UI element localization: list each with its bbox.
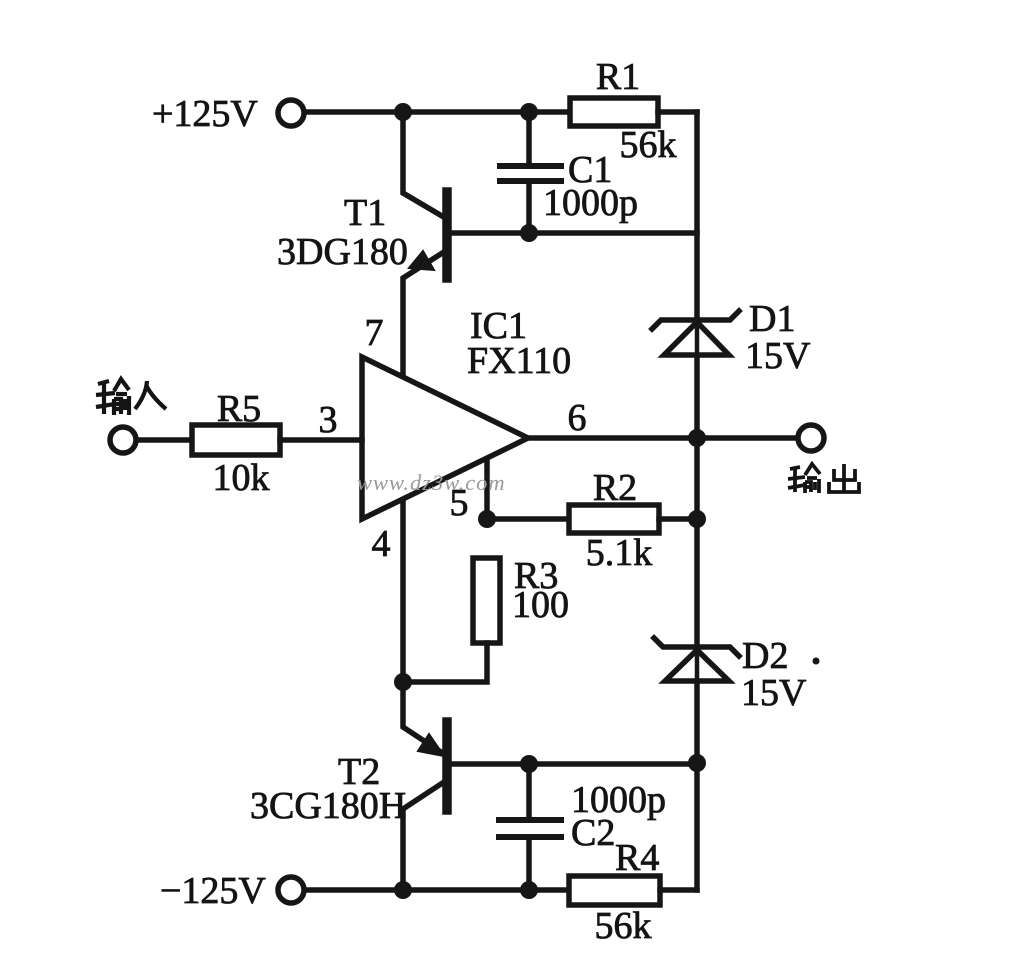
svg-text:C2: C2 (571, 812, 615, 854)
svg-text:3: 3 (319, 399, 338, 441)
wire pin6 output (528, 435, 797, 441)
wire R4 right (660, 887, 697, 893)
wire R3 bottom (403, 643, 487, 682)
svg-text:−125V: −125V (160, 870, 266, 912)
node C2 bottom junction (520, 881, 538, 899)
capacitor C1 (500, 112, 561, 233)
svg-text:3CG180H: 3CG180H (250, 785, 406, 827)
transistor T2 (403, 682, 447, 890)
terminal -125V (278, 877, 304, 903)
svg-text:R2: R2 (593, 467, 637, 509)
svg-text:5.1k: 5.1k (586, 532, 653, 574)
wire T1 base line (451, 230, 697, 236)
resistor R3 (473, 558, 500, 643)
node output junction (688, 429, 706, 447)
resistor R4 (569, 876, 660, 905)
svg-text:D2: D2 (742, 635, 788, 677)
node R2 right junction (688, 510, 706, 528)
wire R2 right (659, 516, 697, 522)
wire pin4 (400, 500, 406, 682)
svg-text:56k: 56k (620, 124, 677, 166)
zener diode D1 (652, 311, 739, 355)
label 输入 (input) hand-drawn (96, 379, 166, 415)
wire bottom rail (305, 887, 569, 893)
svg-text:6: 6 (568, 397, 587, 439)
label period dot (813, 658, 820, 665)
svg-text:15V: 15V (741, 672, 807, 714)
svg-text:R4: R4 (615, 837, 659, 879)
resistor R1 (570, 98, 658, 126)
svg-text:T1: T1 (344, 192, 386, 234)
wire R2 left (487, 516, 569, 522)
node D2 bottom junction (688, 754, 706, 772)
node T2 emitter bottom (394, 881, 412, 899)
svg-text:10k: 10k (213, 457, 270, 499)
wire top rail (305, 109, 571, 115)
node junction C1 bottom (520, 224, 538, 242)
svg-text:FX110: FX110 (467, 340, 571, 382)
node junction C1 top (520, 103, 538, 121)
transistor T1 (403, 112, 447, 377)
terminal +125V (278, 100, 304, 126)
wire input (137, 437, 192, 443)
wire right rail (694, 112, 700, 890)
resistor R2 (569, 505, 659, 533)
svg-text:3DG180: 3DG180 (277, 231, 408, 273)
svg-text:4: 4 (372, 523, 391, 565)
capacitor C2 (499, 764, 561, 890)
node C2 top junction (520, 755, 538, 773)
svg-text:D1: D1 (749, 298, 795, 340)
svg-text:R5: R5 (217, 388, 261, 430)
node junction top-left (394, 103, 412, 121)
zener diode D2 (654, 638, 739, 681)
node pin5 junction (478, 510, 496, 528)
svg-text:+125V: +125V (152, 93, 258, 135)
terminal output (798, 425, 824, 451)
terminal input (110, 427, 136, 453)
svg-text:15V: 15V (745, 335, 811, 377)
wire pin3 (280, 437, 362, 443)
svg-text:56k: 56k (595, 905, 652, 947)
svg-text:R1: R1 (596, 56, 640, 98)
op-amp IC1 (362, 357, 528, 519)
wire R1 right to rail (658, 109, 697, 115)
wire pin5 (484, 460, 490, 519)
wire T2 base line (451, 761, 697, 767)
resistor R5 (192, 425, 280, 455)
svg-text:100: 100 (512, 584, 569, 626)
label 输出 (output) hand-drawn (788, 464, 859, 493)
svg-text:www.dz3w.com: www.dz3w.com (357, 470, 506, 495)
node pin4/R3 junction (394, 673, 412, 691)
svg-text:7: 7 (365, 312, 384, 354)
svg-text:1000p: 1000p (543, 182, 638, 224)
